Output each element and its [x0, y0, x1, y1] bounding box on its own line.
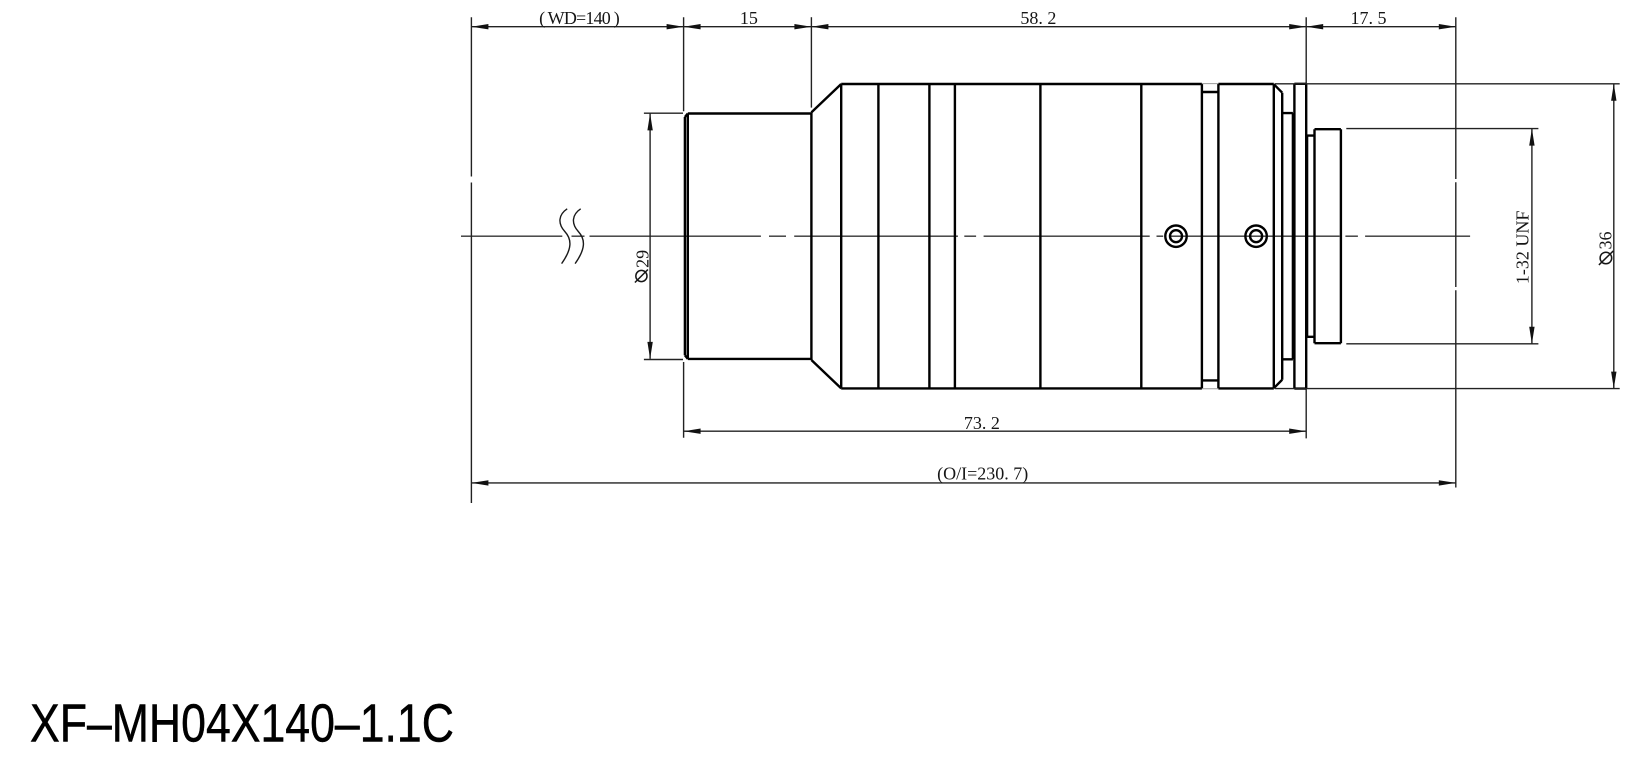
arrow 15 right: [794, 24, 811, 29]
main body (phi36 barrel): [841, 84, 1274, 388]
svg-text:15: 15: [740, 8, 758, 28]
UNF arrow down: [1529, 327, 1534, 344]
top dimension chain line y=26.7: [471, 26, 1455, 28]
focus ring line 1: [877, 84, 879, 388]
svg-text:58. 2: 58. 2: [1020, 8, 1056, 28]
phi29 arrow up: [647, 113, 652, 130]
phi36 dimension line (x=1613.8): [1613, 84, 1615, 389]
svg-text:17. 5: 17. 5: [1351, 8, 1387, 28]
arrow 15 left: [684, 24, 701, 29]
groove ring: [1202, 84, 1219, 388]
C-mount ring: [1315, 129, 1341, 343]
svg-text:XF–MH04X140–1.1C: XF–MH04X140–1.1C: [30, 694, 454, 754]
arrow O/I left: [471, 480, 488, 485]
phi36 arrow up: [1611, 84, 1616, 101]
break symbol (compressed WD distance, double S-curve): [560, 209, 584, 264]
conical transition barrel to body: [811, 84, 841, 388]
neck ring: [1282, 113, 1293, 359]
arrow 17.5 left: [1306, 24, 1323, 29]
set screw 2: [1245, 226, 1266, 247]
extension line flange right (x=1306.2): [1305, 17, 1307, 438]
step ring: [1307, 136, 1314, 337]
extension line 15mm right (x=811.4): [810, 17, 812, 107]
arrow 73.2 right: [1289, 429, 1306, 434]
svg-text:36: 36: [1596, 232, 1616, 250]
svg-text:( WD=140 ): ( WD=140 ): [539, 8, 620, 29]
svg-text:1-32 UNF: 1-32 UNF: [1513, 211, 1533, 285]
arrow 58.2 left: [811, 24, 828, 29]
arrow 58.2 right: [1289, 24, 1306, 29]
arrow 73.2 left: [684, 429, 701, 434]
body end face and chamfer: [1274, 84, 1282, 388]
focus ring line 2: [928, 84, 930, 388]
svg-text:(O/I=230. 7): (O/I=230. 7): [937, 464, 1028, 485]
phi36 arrow down: [1611, 372, 1616, 389]
extension line WD left (x=471.4, with small break): [470, 17, 472, 503]
phi29 dimension line (x=650.1): [649, 113, 651, 359]
set screw 1: [1165, 226, 1186, 247]
phi36 extension lines: [1275, 84, 1620, 389]
phi29 extension lines: [644, 113, 683, 359]
O/I overall dimension line: [471, 482, 1455, 484]
73.2 dimension line: [684, 430, 1307, 432]
focus ring line 3: [954, 84, 956, 388]
phi29 arrow down: [647, 342, 652, 359]
arrow WD left: [471, 24, 488, 29]
UNF arrow up: [1529, 129, 1534, 146]
extension line lens rear (x=1455.8): [1455, 17, 1457, 487]
1-32 UNF dimension line (x=1531.9): [1531, 129, 1533, 344]
svg-text:73. 2: 73. 2: [964, 413, 1000, 433]
rear barrel thread outline (1-32 UNF) + extension lines: [1346, 129, 1538, 344]
front barrel (lens head, phi29): [685, 112, 812, 360]
rear flange plate (phi36): [1294, 84, 1306, 389]
arrow WD right: [667, 24, 684, 29]
groove faint bridge lines: [1202, 84, 1219, 389]
extension line lens front (x=683.6): [683, 17, 685, 438]
svg-text:29: 29: [633, 250, 653, 268]
zoom ring line: [1039, 84, 1041, 388]
centerline (lens optical axis, dash-dot): [461, 235, 1470, 237]
arrow 17.5 right: [1439, 24, 1456, 29]
rear section line: [1140, 84, 1142, 388]
arrow O/I right: [1439, 480, 1456, 485]
